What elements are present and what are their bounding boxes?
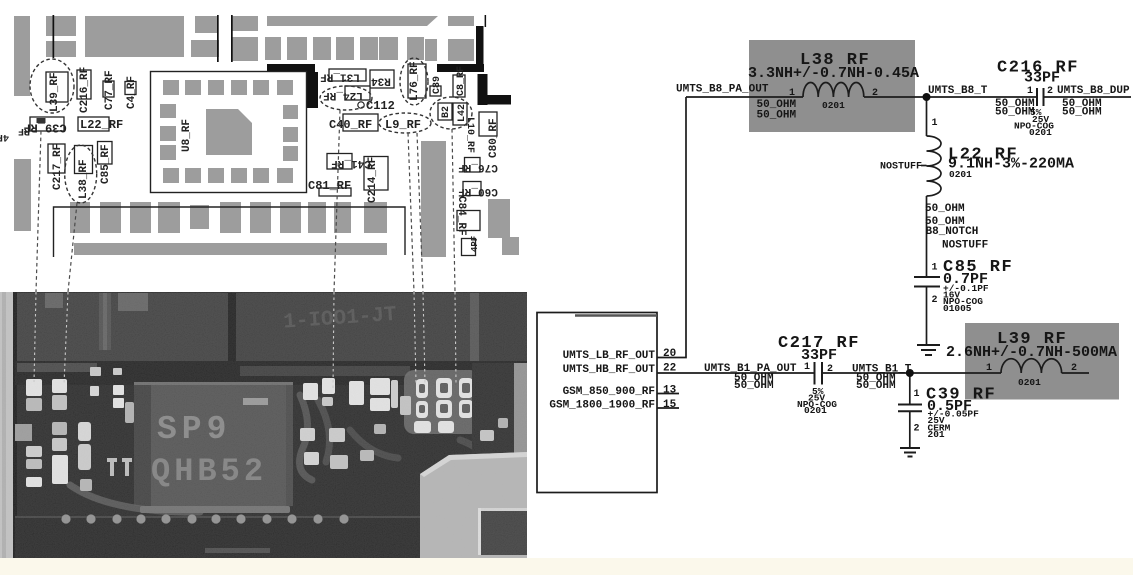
svg-text:2: 2 [1047, 86, 1053, 97]
svg-text:2: 2 [914, 424, 920, 435]
svg-text:50_OHM: 50_OHM [1062, 107, 1102, 119]
svg-text:L31_RF: L31_RF [320, 71, 360, 83]
svg-text:50_OHM: 50_OHM [925, 203, 965, 215]
svg-text:C112: C112 [366, 99, 395, 113]
svg-text:UMTS_HB_RF_OUT: UMTS_HB_RF_OUT [563, 364, 656, 376]
svg-text:R34: R34 [371, 75, 391, 87]
svg-text:50_OHM: 50_OHM [734, 380, 774, 392]
svg-text:C76_RF: C76_RF [458, 161, 498, 173]
svg-text:C8_RF: C8_RF [456, 66, 467, 96]
svg-text:C216_RF: C216_RF [79, 67, 91, 113]
svg-text:C81_RF: C81_RF [308, 179, 351, 193]
svg-text:15: 15 [663, 399, 677, 411]
svg-text:C89: C89 [432, 76, 443, 94]
svg-text:2: 2 [1071, 363, 1077, 374]
svg-text:4F: 4F [0, 131, 9, 142]
svg-text:RF: RF [18, 125, 30, 136]
svg-text:22: 22 [663, 363, 676, 375]
svg-text:C41_RF: C41_RF [331, 157, 371, 169]
svg-text:1: 1 [1027, 86, 1033, 97]
svg-text:33PF: 33PF [1024, 70, 1060, 87]
svg-text:L76_RF: L76_RF [409, 61, 421, 101]
svg-text:1: 1 [932, 263, 938, 274]
svg-text:L38_RF: L38_RF [78, 159, 90, 199]
svg-text:13: 13 [663, 385, 677, 397]
svg-text:20: 20 [663, 348, 676, 360]
svg-text:C80_RF: C80_RF [488, 118, 500, 158]
svg-text:201: 201 [928, 429, 945, 440]
svg-text:GSM_1800_1900_RF: GSM_1800_1900_RF [549, 400, 655, 412]
svg-text:1: 1 [932, 118, 938, 129]
svg-text:50_OHM: 50_OHM [995, 107, 1035, 119]
svg-text:NOSTUFF: NOSTUFF [942, 240, 988, 252]
svg-text:50_OHM: 50_OHM [856, 380, 896, 392]
svg-text:50_OHM: 50_OHM [757, 110, 797, 122]
svg-text:01005: 01005 [943, 303, 972, 314]
svg-text:B2: B2 [441, 106, 452, 118]
svg-text:0201: 0201 [1018, 377, 1041, 388]
svg-text:C40_RF: C40_RF [329, 118, 372, 132]
svg-text:0201: 0201 [1029, 127, 1052, 138]
svg-text:C77_RF: C77_RF [104, 70, 116, 110]
svg-text:1: 1 [986, 363, 992, 374]
svg-text:C217_RF: C217_RF [52, 144, 64, 190]
svg-text:0201: 0201 [949, 169, 972, 180]
svg-text:C214_RF: C214_RF [367, 157, 379, 203]
svg-text:UMTS_LB_RF_OUT: UMTS_LB_RF_OUT [563, 350, 656, 362]
svg-text:1: 1 [914, 389, 920, 400]
svg-text:NOSTUFF: NOSTUFF [880, 162, 922, 173]
svg-text:C4_RF: C4_RF [126, 76, 138, 109]
svg-text:L22_RF: L22_RF [80, 118, 123, 132]
svg-text:2: 2 [932, 295, 938, 306]
svg-text:1: 1 [804, 362, 810, 373]
svg-text:2: 2 [827, 364, 833, 375]
svg-text:2: 2 [872, 88, 878, 99]
svg-text:C84_RF: C84_RF [455, 196, 467, 236]
svg-text:B8_NOTCH: B8_NOTCH [926, 226, 979, 238]
svg-text:UMTS_B8_DUP: UMTS_B8_DUP [1057, 85, 1130, 97]
svg-text:C85_RF: C85_RF [100, 144, 112, 184]
svg-text:0201: 0201 [822, 100, 845, 111]
svg-text:U8_RF: U8_RF [181, 119, 193, 152]
svg-text:2.6NH+/-0.7NH-500MA: 2.6NH+/-0.7NH-500MA [946, 344, 1117, 361]
svg-text:L39_RF: L39_RF [49, 72, 61, 112]
svg-text:3.3NH+/-0.7NH-0.45A: 3.3NH+/-0.7NH-0.45A [748, 65, 919, 82]
svg-text:UMTS_B8_T: UMTS_B8_T [928, 85, 988, 97]
svg-text:4PF: 4PF [470, 236, 480, 252]
svg-text:L10_RF: L10_RF [464, 117, 475, 153]
svg-text:0201: 0201 [804, 405, 827, 416]
svg-text:L9_RF: L9_RF [385, 118, 421, 132]
svg-text:GSM_850_900_RF: GSM_850_900_RF [563, 386, 655, 398]
svg-text:1: 1 [789, 88, 795, 99]
svg-text:L24_RF: L24_RF [323, 89, 363, 101]
svg-text:UMTS_B8_PA_OUT: UMTS_B8_PA_OUT [676, 84, 769, 96]
